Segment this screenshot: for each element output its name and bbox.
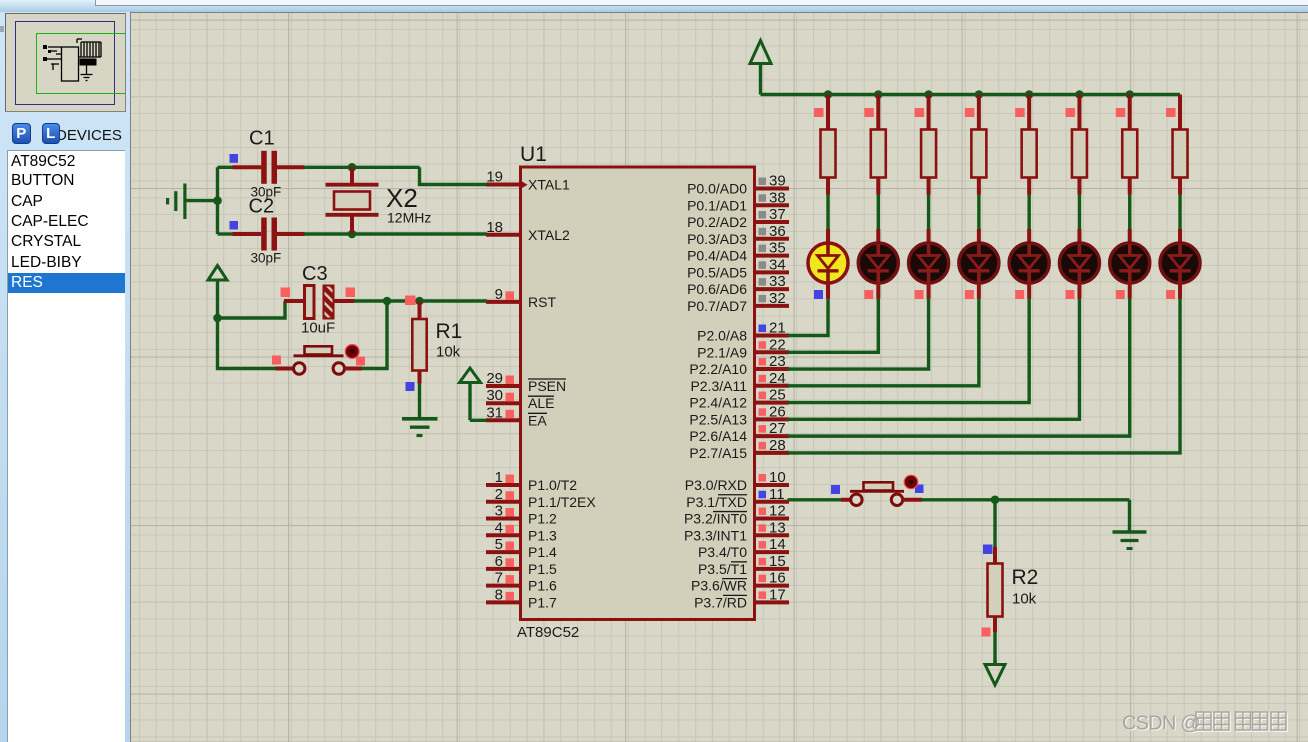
svg-text:X2: X2 xyxy=(386,183,418,213)
svg-text:P3.1/TXD: P3.1/TXD xyxy=(686,494,747,510)
svg-text:38: 38 xyxy=(769,189,786,206)
svg-text:11: 11 xyxy=(769,486,785,503)
svg-text:P3.7/RD: P3.7/RD xyxy=(694,594,747,610)
svg-text:10: 10 xyxy=(769,469,786,486)
svg-text:33: 33 xyxy=(769,273,786,290)
svg-text:P0.2/AD2: P0.2/AD2 xyxy=(687,214,747,230)
svg-text:ALE: ALE xyxy=(528,395,554,411)
svg-text:18: 18 xyxy=(486,219,503,236)
svg-text:37: 37 xyxy=(769,206,786,223)
svg-text:31: 31 xyxy=(486,404,503,421)
svg-text:U1: U1 xyxy=(520,143,547,166)
svg-text:P1.2: P1.2 xyxy=(528,511,557,527)
svg-text:30pF: 30pF xyxy=(251,251,282,266)
svg-text:12MHz: 12MHz xyxy=(387,210,431,226)
svg-text:13: 13 xyxy=(769,519,786,536)
svg-text:14: 14 xyxy=(769,536,786,553)
svg-text:P0.6/AD6: P0.6/AD6 xyxy=(687,281,747,297)
svg-text:P0.0/AD0: P0.0/AD0 xyxy=(687,181,747,197)
svg-text:P1.1/T2EX: P1.1/T2EX xyxy=(528,494,596,510)
svg-text:10uF: 10uF xyxy=(301,320,335,337)
svg-text:RST: RST xyxy=(528,294,556,310)
svg-text:P2.7/A15: P2.7/A15 xyxy=(689,445,747,461)
svg-text:EA: EA xyxy=(528,412,547,428)
svg-text:27: 27 xyxy=(769,420,786,437)
svg-text:12: 12 xyxy=(769,503,786,520)
svg-text:9: 9 xyxy=(495,286,503,303)
svg-text:P2.4/A12: P2.4/A12 xyxy=(689,395,747,411)
svg-text:P3.3/INT1: P3.3/INT1 xyxy=(684,527,747,543)
svg-text:P3.2/INT0: P3.2/INT0 xyxy=(684,511,747,527)
svg-text:19: 19 xyxy=(486,169,503,186)
svg-text:21: 21 xyxy=(769,320,786,337)
svg-text:P3.5/T1: P3.5/T1 xyxy=(698,561,747,577)
svg-text:C1: C1 xyxy=(249,128,275,150)
svg-text:C2: C2 xyxy=(249,196,275,218)
svg-text:7: 7 xyxy=(495,570,503,587)
svg-text:P1.5: P1.5 xyxy=(528,561,557,577)
svg-text:8: 8 xyxy=(495,586,503,603)
svg-text:XTAL1: XTAL1 xyxy=(528,177,570,193)
svg-text:P3.6/WR: P3.6/WR xyxy=(691,578,747,594)
svg-text:36: 36 xyxy=(769,223,786,240)
svg-text:35: 35 xyxy=(769,240,786,257)
svg-text:PSEN: PSEN xyxy=(528,378,566,394)
svg-text:2: 2 xyxy=(495,486,503,503)
svg-text:C3: C3 xyxy=(302,263,328,285)
svg-text:AT89C52: AT89C52 xyxy=(517,624,579,641)
svg-text:23: 23 xyxy=(769,353,786,370)
svg-text:CSDN @: CSDN @ xyxy=(1122,712,1200,734)
svg-text:1: 1 xyxy=(495,469,503,486)
svg-text:P2.3/A11: P2.3/A11 xyxy=(690,378,747,394)
svg-text:P2.2/A10: P2.2/A10 xyxy=(689,361,747,377)
svg-text:16: 16 xyxy=(769,570,786,587)
svg-text:22: 22 xyxy=(769,336,786,353)
svg-text:4: 4 xyxy=(495,519,503,536)
svg-text:26: 26 xyxy=(769,403,786,420)
svg-text:R2: R2 xyxy=(1012,566,1039,589)
svg-text:39: 39 xyxy=(769,173,786,190)
svg-text:28: 28 xyxy=(769,437,786,454)
svg-text:P0.3/AD3: P0.3/AD3 xyxy=(687,231,747,247)
svg-text:29: 29 xyxy=(486,370,503,387)
svg-text:P2.1/A9: P2.1/A9 xyxy=(697,344,747,360)
svg-text:P1.0/T2: P1.0/T2 xyxy=(528,477,577,493)
svg-text:P0.7/AD7: P0.7/AD7 xyxy=(687,298,747,314)
svg-text:6: 6 xyxy=(495,553,503,570)
svg-text:R1: R1 xyxy=(436,320,463,343)
svg-text:P0.1/AD1: P0.1/AD1 xyxy=(687,197,747,213)
svg-text:32: 32 xyxy=(769,290,786,307)
svg-text:3: 3 xyxy=(495,503,503,520)
svg-text:P1.6: P1.6 xyxy=(528,578,557,594)
svg-text:P0.5/AD5: P0.5/AD5 xyxy=(687,264,747,280)
svg-text:17: 17 xyxy=(769,586,786,603)
svg-text:25: 25 xyxy=(769,387,786,404)
svg-text:P2.5/A13: P2.5/A13 xyxy=(689,411,747,427)
svg-text:10k: 10k xyxy=(1012,591,1037,608)
svg-text:24: 24 xyxy=(769,370,786,387)
svg-text:10k: 10k xyxy=(436,344,461,361)
svg-text:5: 5 xyxy=(495,536,503,553)
svg-text:P3.4/T0: P3.4/T0 xyxy=(698,544,747,560)
svg-text:15: 15 xyxy=(769,553,786,570)
svg-text:P1.3: P1.3 xyxy=(528,527,557,543)
svg-text:P2.6/A14: P2.6/A14 xyxy=(689,428,747,444)
svg-text:34: 34 xyxy=(769,256,786,273)
svg-text:XTAL2: XTAL2 xyxy=(528,227,570,243)
svg-text:30: 30 xyxy=(486,387,503,404)
svg-text:P2.0/A8: P2.0/A8 xyxy=(697,328,747,344)
svg-text:P1.4: P1.4 xyxy=(528,544,557,560)
svg-text:P3.0/RXD: P3.0/RXD xyxy=(685,477,747,493)
svg-text:P1.7: P1.7 xyxy=(528,594,557,610)
svg-text:P0.4/AD4: P0.4/AD4 xyxy=(687,248,747,264)
